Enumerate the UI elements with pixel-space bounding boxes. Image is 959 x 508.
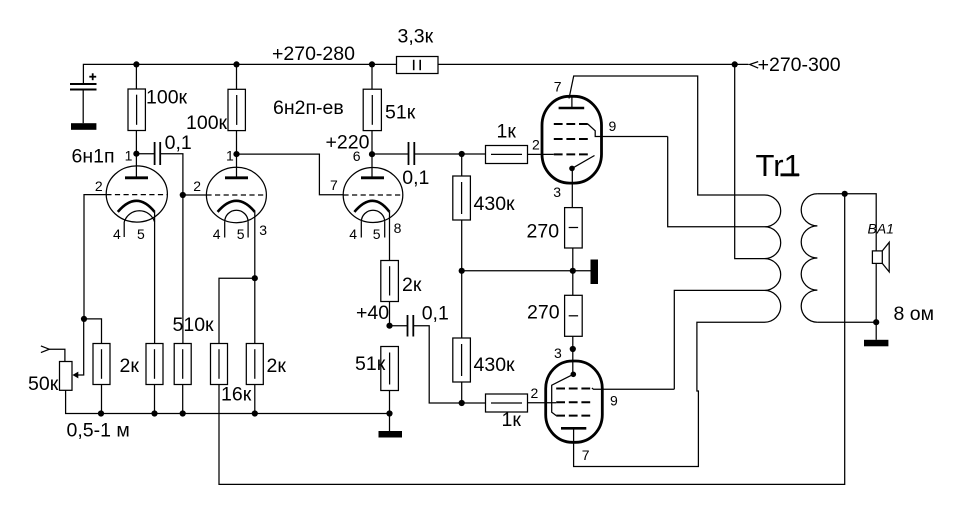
svg-text:+270-300: +270-300 bbox=[758, 54, 841, 76]
wire secondary top to speaker bbox=[817, 194, 876, 251]
tube V1 grid dashed line bbox=[106, 194, 167, 196]
wire grid node to grid leak bbox=[84, 319, 102, 344]
svg-text:8: 8 bbox=[394, 220, 402, 236]
svg-text:4: 4 bbox=[349, 226, 357, 242]
svg-text:2: 2 bbox=[531, 385, 539, 401]
wire +40 node to C4 bbox=[390, 325, 408, 327]
wire pin9 top to transformer tap bbox=[668, 137, 765, 227]
ground symbol speaker bbox=[864, 340, 888, 347]
potentiometer 50k body bbox=[60, 362, 73, 391]
wire grid node to R5 bbox=[461, 154, 463, 176]
node junction dot rail at transformer centre tap bbox=[732, 61, 738, 67]
wire secondary bottom bbox=[817, 321, 876, 323]
wire top supply rail left segment bbox=[83, 64, 396, 83]
speaker BA1 horn bbox=[882, 242, 889, 272]
tube V5 g3 path bbox=[552, 374, 574, 415]
svg-text:4: 4 bbox=[213, 226, 221, 242]
resistor R6 inner line bbox=[461, 344, 463, 376]
tube V2 heater leg pin4 bbox=[224, 222, 226, 238]
svg-text:9: 9 bbox=[610, 392, 618, 408]
wire pot to ground bus bbox=[66, 390, 390, 413]
wire rail to R1 bbox=[135, 64, 137, 89]
tube V1 cathode arc bbox=[118, 201, 155, 212]
resistor R1 100k body bbox=[128, 89, 145, 131]
tube V2 anode lead bbox=[236, 154, 238, 178]
tube V4 g3 diagonal bbox=[572, 156, 595, 169]
tube V4 pin7 anode wire bbox=[569, 76, 765, 195]
wire C1 to ground bbox=[82, 90, 84, 124]
tube V2 heater arc bbox=[225, 210, 248, 222]
node V2 cathode junction dot bbox=[252, 275, 258, 281]
tube V4 anode lead bbox=[571, 96, 573, 108]
wire R15 to bus bbox=[182, 385, 184, 414]
tube V5 anode lead pin7 bbox=[574, 322, 765, 466]
svg-text:1к: 1к bbox=[497, 121, 517, 143]
wire rail to R3 bbox=[371, 64, 373, 89]
arrow input terminal +270-300 bbox=[750, 62, 759, 69]
svg-text:1к: 1к bbox=[502, 409, 522, 431]
svg-text:6н2п-ев: 6н2п-ев bbox=[273, 97, 344, 119]
resistor R1 inner line bbox=[136, 95, 138, 125]
wire R11 to cathode node bbox=[572, 248, 574, 271]
tube V4 output top envelope bbox=[542, 96, 602, 183]
tube V5 screen tap pin9 bbox=[592, 388, 674, 389]
wire V3 anode to C3 bbox=[372, 153, 409, 155]
wire R6 to bottom grid node bbox=[461, 382, 463, 403]
node junction dot rail at 51k bbox=[369, 61, 375, 67]
resistor R10 1k body bottom bbox=[486, 394, 528, 412]
wire speaker to ground bbox=[875, 263, 877, 339]
resistor R3 inner line bbox=[371, 95, 373, 125]
potentiometer wiper arrow bbox=[72, 372, 78, 379]
node mid divider junction dot bbox=[459, 268, 465, 274]
node top grid junction dot bbox=[459, 151, 465, 157]
tube V3 cathode lead down pin8 bbox=[389, 212, 391, 261]
svg-text:7: 7 bbox=[554, 78, 562, 94]
resistor R5 430k body bbox=[453, 176, 471, 220]
resistor R16 inner line bbox=[218, 349, 220, 379]
svg-text:2к: 2к bbox=[120, 355, 140, 377]
tube V3 heater arc bbox=[361, 210, 384, 222]
svg-text:4: 4 bbox=[113, 226, 121, 242]
tube V3 grid dashed line bbox=[343, 194, 402, 196]
capacitor C1 plus sign bbox=[89, 73, 96, 80]
svg-text:50к: 50к bbox=[28, 373, 59, 395]
tube V1 anode bar bbox=[125, 176, 148, 179]
resistor R17 inner line bbox=[254, 349, 256, 379]
tube V3 heater leg pin5 bbox=[384, 222, 386, 238]
node junction dot rail at R2 bbox=[233, 61, 239, 67]
resistor R8 inner line bbox=[389, 266, 391, 295]
svg-text:2к: 2к bbox=[267, 355, 287, 377]
resistor R16 16k body bbox=[211, 344, 228, 385]
resistor R5 inner line bbox=[461, 182, 463, 214]
tube V5 anode bar bbox=[561, 427, 586, 430]
wire R7 to output tube grid bbox=[528, 153, 554, 155]
capacitor C4 0,1 plates bbox=[408, 315, 414, 337]
wire mid node to cathode node bbox=[462, 270, 573, 272]
svg-text:270: 270 bbox=[527, 220, 560, 242]
wire R17 to bus bbox=[254, 385, 256, 414]
tube V2 cathode lead down bbox=[254, 212, 256, 344]
node secondary top junction dot bbox=[842, 191, 848, 197]
tube V4 grid row2 bbox=[554, 138, 588, 140]
svg-text:9: 9 bbox=[609, 118, 617, 134]
tube V2 heater leg pin5 bbox=[247, 222, 249, 238]
resistor R9 inner line bbox=[389, 353, 391, 385]
svg-text:7: 7 bbox=[582, 447, 590, 463]
transformer Tr1 primary winding bbox=[765, 195, 781, 322]
wire V2 grid bbox=[183, 194, 207, 196]
resistor R12 270 body bbox=[565, 295, 583, 336]
wire V2 anode to V3 grid bbox=[237, 154, 344, 195]
capacitor C3 0,1 plates bbox=[409, 142, 415, 165]
tube V5 grid row1 bbox=[556, 388, 592, 390]
svg-text:2: 2 bbox=[532, 137, 540, 153]
resistor R9 51k body bbox=[381, 347, 399, 391]
node pin3 bottom dot bbox=[570, 346, 576, 352]
wire centre tap from rail bbox=[735, 64, 765, 258]
svg-text:16к: 16к bbox=[221, 384, 252, 406]
svg-text:3: 3 bbox=[553, 184, 561, 200]
wire cathode node to R12 bbox=[572, 271, 574, 296]
tube V2 anode bar bbox=[225, 176, 248, 179]
resistor R11 270 body bbox=[565, 208, 583, 248]
svg-text:0,5-1 м: 0,5-1 м bbox=[67, 419, 130, 441]
tube V3 envelope circle bbox=[343, 168, 403, 223]
wire R13 to bus bbox=[101, 385, 103, 414]
tube V5 grid row2 bbox=[556, 401, 592, 403]
svg-text:430к: 430к bbox=[474, 193, 516, 215]
label Tr1 digit foot bbox=[781, 173, 800, 176]
tube V2 envelope circle bbox=[206, 167, 266, 222]
resistor R15 inner line bbox=[182, 349, 184, 379]
resistor R6 430k body bbox=[453, 338, 471, 382]
node V1 anode junction dot bbox=[133, 151, 139, 157]
svg-text:8 ом: 8 ом bbox=[894, 303, 935, 325]
tube V5 cathode dot bbox=[571, 372, 577, 378]
speaker BA1 box bbox=[872, 251, 882, 264]
resistor R13 grid leak body bbox=[93, 344, 110, 385]
wire R16 top to V2 cathode node bbox=[219, 278, 255, 343]
wire R10 to bottom output tube grid bbox=[528, 402, 557, 404]
node +40 junction dot bbox=[386, 323, 392, 329]
wire R9 to ground bus bbox=[389, 391, 391, 414]
tube V3 anode bar bbox=[361, 176, 384, 179]
wire R2 to tube V2 anode node bbox=[236, 131, 238, 155]
wire cathode node to ground tick bbox=[573, 270, 591, 272]
resistor R7 1k body top bbox=[486, 146, 528, 164]
resistor R14 inner line bbox=[154, 349, 156, 379]
svg-text:510к: 510к bbox=[173, 314, 215, 336]
svg-text:100к: 100к bbox=[186, 112, 228, 134]
wire R3 to tube V3 anode node bbox=[371, 131, 373, 155]
ground symbol below C1 bbox=[71, 123, 96, 130]
resistor R13 inner line bbox=[101, 349, 103, 379]
tube V3 cathode arc bbox=[354, 201, 389, 212]
tube V1 cathode lead down bbox=[154, 212, 156, 344]
wire top supply rail right segment bbox=[438, 63, 749, 65]
node V2 anode junction dot bbox=[233, 151, 239, 157]
wire input to pot bbox=[49, 349, 65, 361]
svg-text:430к: 430к bbox=[474, 354, 516, 376]
wire R1 to tube V1 anode node bbox=[135, 131, 137, 154]
tube V4 screen tap to pin9 bbox=[588, 124, 668, 137]
resistor R14 2k body bbox=[146, 344, 163, 385]
svg-text:0,1: 0,1 bbox=[165, 132, 192, 154]
node bottom grid junction dot bbox=[459, 400, 465, 406]
resistor R2 inner line bbox=[236, 95, 238, 125]
svg-text:2к: 2к bbox=[402, 274, 422, 296]
tube V1 envelope circle bbox=[106, 166, 167, 222]
svg-text:BA1: BA1 bbox=[868, 221, 894, 237]
node bus dot R14 bbox=[151, 410, 157, 416]
ground symbol main bbox=[379, 431, 403, 438]
capacitor C1 electrolytic plates bbox=[70, 84, 97, 90]
resistor R12 inner tick bbox=[569, 315, 578, 317]
tube V4 cathode lead down pin3 bbox=[571, 168, 573, 207]
wire C4 to bottom grid node bbox=[413, 326, 461, 403]
wire R14 to bus bbox=[154, 385, 156, 414]
resistor R17 2k body bbox=[246, 344, 263, 385]
wire C3 to grid node bbox=[414, 153, 485, 155]
node bus dot R17 bbox=[252, 410, 258, 416]
tube V2 cathode arc bbox=[218, 201, 255, 212]
svg-text:6: 6 bbox=[353, 148, 361, 164]
node cathode junction dot bbox=[570, 268, 576, 274]
tube V1 heater arc bbox=[124, 211, 154, 222]
tube V1 anode lead bbox=[135, 154, 137, 178]
wire feedback loop bbox=[219, 194, 845, 485]
svg-text:270: 270 bbox=[527, 302, 560, 324]
svg-text:1: 1 bbox=[125, 147, 133, 163]
tube V5 output bottom envelope bbox=[546, 361, 603, 442]
node V2 grid junction dot bbox=[180, 192, 186, 198]
node secondary bottom junction dot bbox=[873, 319, 879, 325]
wire C2 to V2 grid node bbox=[160, 154, 183, 344]
svg-text:5: 5 bbox=[373, 226, 381, 242]
svg-text:+220: +220 bbox=[326, 131, 370, 153]
resistor R10 inner line bbox=[491, 402, 522, 404]
input jack symbol bbox=[41, 346, 49, 353]
resistor R2 100k body bbox=[228, 89, 245, 130]
transformer Tr1 secondary winding bbox=[801, 194, 817, 322]
svg-text:5: 5 bbox=[237, 226, 245, 242]
resistor R11 inner tick bbox=[569, 227, 578, 229]
wire R8 to +40 node bbox=[389, 302, 391, 326]
wire V1 grid to volume pot bbox=[84, 195, 106, 319]
resistor R3 51k body bbox=[363, 89, 381, 130]
wire grid node to R10 bbox=[462, 402, 486, 404]
svg-text:6н1п: 6н1п bbox=[72, 146, 115, 168]
svg-text:100к: 100к bbox=[146, 87, 188, 109]
wire wiper to grid node bbox=[77, 319, 84, 375]
wire R12 to bottom tube cathode bbox=[572, 336, 574, 374]
node V3 anode junction dot +220 bbox=[369, 151, 375, 157]
svg-text:2: 2 bbox=[95, 178, 103, 194]
svg-text:3: 3 bbox=[554, 345, 562, 361]
wire V1 anode to C2 bbox=[136, 153, 154, 155]
wire ground stub bbox=[389, 414, 391, 432]
tube V3 anode lead bbox=[371, 154, 373, 178]
resistor R8 2k body bbox=[381, 261, 399, 302]
svg-text:0,1: 0,1 bbox=[402, 167, 429, 189]
capacitor C2 0,1 plates bbox=[155, 142, 161, 165]
resistor R4 inner ticks bbox=[414, 60, 421, 70]
node junction dot rail at R1 bbox=[133, 61, 139, 67]
svg-text:0,1: 0,1 bbox=[422, 302, 449, 324]
resistor R15 510k body bbox=[174, 344, 191, 385]
svg-text:+270-280: +270-280 bbox=[272, 43, 355, 65]
wire pin9 bottom to transformer tap bbox=[674, 290, 764, 389]
svg-text:51к: 51к bbox=[355, 353, 386, 375]
node bus dot R13 bbox=[98, 410, 104, 416]
resistor R4 3,3k body bbox=[397, 57, 439, 74]
ground tick bar bbox=[591, 260, 599, 285]
tube V1 heater leg pin4 bbox=[123, 222, 125, 237]
svg-text:Tr1: Tr1 bbox=[756, 148, 801, 183]
svg-text:+40: +40 bbox=[356, 302, 389, 324]
svg-text:2: 2 bbox=[193, 178, 201, 194]
svg-text:5: 5 bbox=[137, 226, 145, 242]
node ground bus junction dot at R9 bbox=[386, 410, 392, 416]
wire R5 to mid node bbox=[461, 220, 463, 271]
tube V4 grid row3 bbox=[554, 153, 588, 155]
svg-text:1: 1 bbox=[226, 147, 234, 163]
svg-text:3: 3 bbox=[259, 222, 267, 238]
svg-text:7: 7 bbox=[330, 177, 338, 193]
resistor R7 inner line bbox=[491, 153, 522, 155]
svg-text:51к: 51к bbox=[385, 102, 416, 124]
node bus dot R15 bbox=[180, 410, 186, 416]
tube V2 grid dashed line bbox=[206, 194, 266, 196]
wire rail to R2 bbox=[236, 64, 238, 89]
tube V4 anode bar bbox=[559, 107, 585, 110]
node grid junction dot bbox=[81, 316, 87, 322]
tube V3 heater leg pin4 bbox=[360, 222, 362, 238]
tube V5 grid row3 bbox=[556, 415, 592, 417]
wire mid node to R6 bbox=[461, 271, 463, 338]
svg-text:3,3к: 3,3к bbox=[398, 25, 434, 47]
tube V4 grid row1 bbox=[554, 123, 588, 125]
tube V4 cathode dot bbox=[569, 166, 575, 172]
